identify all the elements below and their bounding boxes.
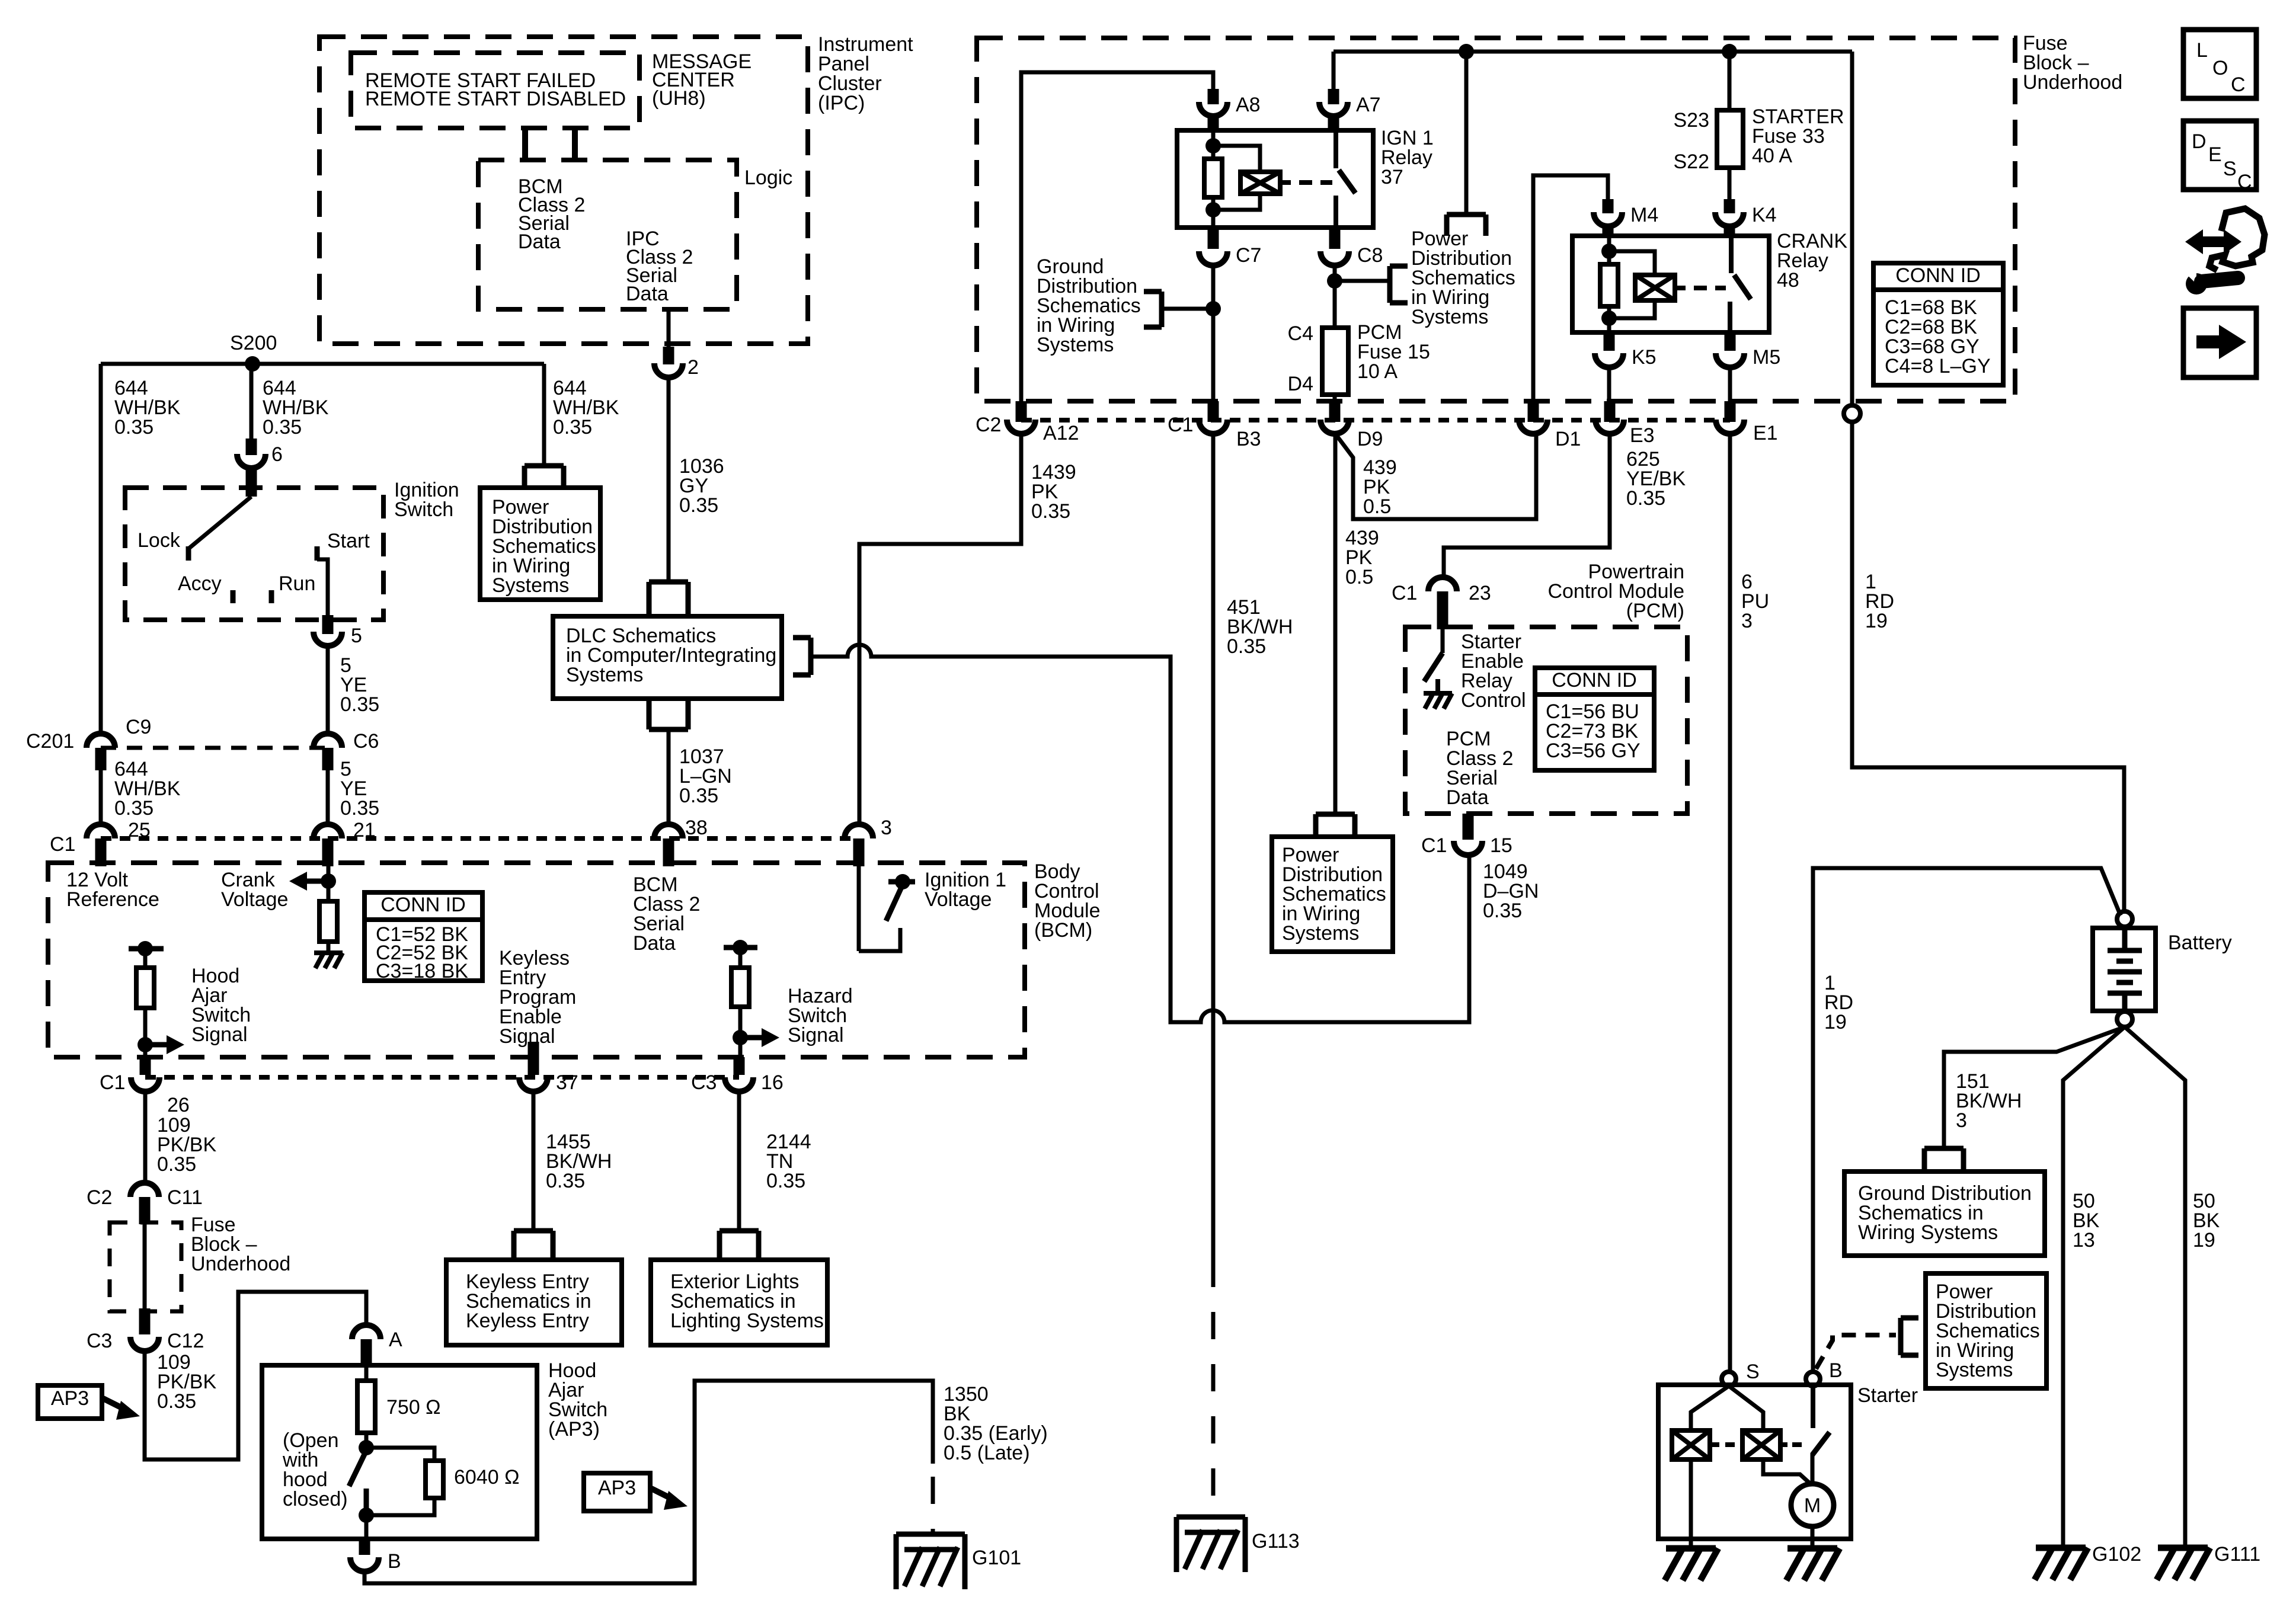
bracket to power distribution box (mid) <box>1316 814 1355 834</box>
icon arrow box <box>2183 308 2256 377</box>
svg-text:16: 16 <box>761 1071 784 1094</box>
wire to PCM internal ground <box>1435 679 1440 693</box>
svg-text:E: E <box>2208 143 2222 166</box>
pin K5 stub <box>1604 332 1615 351</box>
svg-text:0.35: 0.35 <box>766 1170 805 1192</box>
svg-text:CONN ID: CONN ID <box>380 894 466 916</box>
svg-text:Systems: Systems <box>566 664 643 686</box>
wire hood ajar upper <box>143 949 148 968</box>
relay coil feed <box>1211 130 1216 159</box>
svg-text:0.35: 0.35 <box>1031 500 1070 523</box>
svg-text:M: M <box>1804 1494 1821 1517</box>
svg-text:A12: A12 <box>1043 422 1079 444</box>
node crank voltage <box>321 873 336 889</box>
wire to pin B <box>364 1515 369 1539</box>
crank solenoid actuator lead <box>1675 286 1686 290</box>
svg-text:A7: A7 <box>1356 94 1381 116</box>
svg-text:G102: G102 <box>2092 1543 2141 1566</box>
ground starter motor <box>1786 1548 1840 1580</box>
wire 439 PK from D9 down <box>1334 434 1338 812</box>
bracket C8 to power distribution text <box>1390 266 1408 303</box>
svg-text:0.35: 0.35 <box>1626 487 1665 510</box>
CONN ID table (PCM) <box>1535 668 1654 770</box>
svg-text:Control: Control <box>1461 689 1526 712</box>
dashed actuator link IGN1 <box>1299 180 1332 185</box>
Fuse Block - Underhood (small) box <box>110 1222 181 1311</box>
wire ignition 1 voltage inside BCM <box>857 866 861 951</box>
svg-text:E1: E1 <box>1753 422 1778 444</box>
connector C201 dashed row <box>101 746 328 750</box>
pin C1/26 stub <box>140 1057 151 1075</box>
svg-text:Lighting Systems: Lighting Systems <box>670 1310 824 1332</box>
wire to IGN1 solenoid <box>1213 146 1260 172</box>
wire 439 PK loop D9 to D1 <box>1335 434 1536 519</box>
svg-text:0.35: 0.35 <box>546 1170 585 1192</box>
terminal starter S <box>1722 1372 1736 1386</box>
connector C201 pin C9 <box>87 734 115 748</box>
svg-text:D: D <box>2192 130 2207 153</box>
connector pin E3 <box>1595 420 1624 434</box>
tag AP3 (right) <box>584 1473 650 1511</box>
svg-text:26: 26 <box>167 1094 190 1116</box>
svg-text:S: S <box>1746 1361 1760 1383</box>
Powertrain Control Module (PCM) box <box>1405 627 1687 814</box>
wire K5 to E3 <box>1607 367 1611 417</box>
svg-text:6040 Ω: 6040 Ω <box>454 1466 520 1489</box>
svg-text:0.35: 0.35 <box>1227 635 1266 658</box>
C6 stub <box>322 748 334 770</box>
svg-text:Voltage: Voltage <box>925 888 992 911</box>
wire starter enable relay control <box>1441 629 1445 653</box>
C9 stub <box>95 748 107 770</box>
svg-text:A: A <box>389 1329 402 1351</box>
node C8 junction <box>1327 273 1342 289</box>
pin B stub <box>359 1539 370 1555</box>
svg-text:C3=18 BK: C3=18 BK <box>376 960 468 982</box>
svg-text:(UH8): (UH8) <box>652 87 706 110</box>
svg-text:A8: A8 <box>1236 94 1261 116</box>
connector C2 pin A12 <box>1007 420 1035 434</box>
svg-text:Systems: Systems <box>1282 922 1359 945</box>
svg-text:0.35: 0.35 <box>157 1153 196 1176</box>
svg-text:C: C <box>2237 171 2252 193</box>
svg-text:Signal: Signal <box>788 1024 844 1046</box>
wire 1 RD from battery positive to starter B <box>1813 868 2121 1372</box>
svg-text:19: 19 <box>2193 1229 2215 1251</box>
svg-text:C: C <box>2231 73 2246 96</box>
wire A12 to IGN1 relay A8 <box>1021 72 1213 401</box>
svg-text:C6: C6 <box>353 730 379 753</box>
wire PCM fuse to D9 <box>1333 395 1337 417</box>
BCM top connector dashed row (right) <box>328 836 859 841</box>
wire S200 horizontal bus <box>101 362 544 366</box>
wire message center to logic (right stub) <box>572 128 578 161</box>
connector pin C7 <box>1199 251 1227 265</box>
wire from crank solenoid <box>1609 300 1655 318</box>
svg-text:Wiring Systems: Wiring Systems <box>1858 1221 1998 1244</box>
ground starter solenoid <box>1665 1548 1718 1580</box>
svg-text:M4: M4 <box>1630 204 1658 226</box>
dashed actuator link CRANK <box>1694 286 1726 290</box>
connector hood ajar pin B <box>350 1557 379 1571</box>
svg-text:C8: C8 <box>1357 244 1383 267</box>
connector C1 pin 26 <box>131 1077 159 1092</box>
fuse PCM Fuse 15 10A <box>1322 328 1348 395</box>
arrow AP3 left tag <box>103 1398 126 1410</box>
Ignition Switch box <box>125 488 383 620</box>
resistor IGN1 relay coil <box>1204 159 1222 197</box>
wire 1 RD to battery positive <box>1852 422 2124 913</box>
switch starter contacts <box>1812 1432 1830 1455</box>
Lock contact tick <box>186 546 191 561</box>
connector C2/C11 <box>130 1183 159 1197</box>
svg-text:C1: C1 <box>50 833 75 856</box>
node relay coil bottom <box>1205 202 1221 217</box>
wire hold-in coil to motor node <box>1763 1459 1812 1486</box>
svg-text:C3=56 GY: C3=56 GY <box>1546 740 1641 762</box>
svg-text:D9: D9 <box>1357 428 1383 450</box>
hood ajar switch lever <box>349 1451 366 1486</box>
wire hazard lower <box>738 1007 743 1057</box>
starter box <box>1658 1385 1851 1539</box>
tag AP3 (left) <box>38 1385 102 1419</box>
pin 15 stub <box>1463 814 1474 840</box>
wire S to right solenoid <box>1729 1386 1763 1430</box>
svg-text:0.35: 0.35 <box>114 797 154 820</box>
svg-text:CONN ID: CONN ID <box>1895 264 1981 287</box>
svg-text:Underhood: Underhood <box>2023 71 2122 94</box>
wire M5 to E1 <box>1728 367 1732 417</box>
pin D9 stub <box>1329 401 1341 422</box>
svg-text:37: 37 <box>1381 166 1403 188</box>
svg-text:C4=8 L–GY: C4=8 L–GY <box>1885 355 1991 377</box>
pin C8 stub <box>1329 230 1341 249</box>
node ground distribution junction <box>1205 301 1221 316</box>
node hazard signal <box>733 1030 748 1045</box>
wire A to 750 ohm <box>364 1368 369 1381</box>
svg-text:Switch: Switch <box>394 498 453 521</box>
wire 625 YE/BK from E3 to PCM 23 <box>1444 434 1610 577</box>
resistor hazard pull-up <box>731 968 749 1007</box>
svg-text:19: 19 <box>1824 1011 1847 1033</box>
wire 5 YE to C6 <box>326 646 330 735</box>
svg-text:37: 37 <box>556 1071 578 1094</box>
wire dashed to G101 <box>931 1477 935 1532</box>
label CONN ID (fuse block) <box>1873 287 2003 292</box>
IGN1 switch lower contact <box>1334 196 1338 228</box>
pin 3 stub <box>853 838 865 866</box>
svg-text:Reference: Reference <box>66 888 159 911</box>
svg-text:Battery: Battery <box>2168 932 2232 954</box>
svg-text:48: 48 <box>1777 269 1799 292</box>
wire D1 to CRANK relay M4 <box>1533 175 1608 401</box>
svg-text:G101: G101 <box>972 1547 1021 1569</box>
resistor 750 ohm <box>357 1381 375 1433</box>
wire to 6040 ohm top <box>366 1448 434 1461</box>
pin A8 stub <box>1208 89 1219 104</box>
CRANK switch fixed contact upper <box>1729 236 1734 273</box>
svg-text:Lock: Lock <box>137 529 181 552</box>
wire bus to starter fuse <box>1728 52 1732 110</box>
Run contact tick <box>269 590 274 603</box>
svg-text:Data: Data <box>633 932 676 955</box>
hood switch lower contact <box>364 1489 369 1515</box>
wire 50 BK 19 to G111 <box>2125 1027 2185 1545</box>
terminal battery negative <box>2117 1012 2132 1027</box>
relay IGN 1 Relay 37 <box>1177 130 1373 228</box>
wire to BCM internal ground <box>327 942 331 953</box>
svg-text:3: 3 <box>1956 1109 1967 1132</box>
bracket power distribution ref (fuse block) <box>1447 215 1486 236</box>
svg-text:L: L <box>2196 39 2208 62</box>
svg-text:Underhood: Underhood <box>191 1253 290 1275</box>
Power Distribution Schematics box (mid) <box>1272 837 1393 952</box>
dashed link to starter switch <box>1792 1442 1805 1447</box>
svg-text:0.35: 0.35 <box>679 494 718 517</box>
ignition switch Lock lever <box>188 497 251 549</box>
svg-text:E3: E3 <box>1630 424 1655 447</box>
svg-text:B: B <box>388 1550 401 1573</box>
svg-text:Systems: Systems <box>1411 306 1488 328</box>
svg-text:Logic: Logic <box>744 167 792 189</box>
svg-text:Accy: Accy <box>178 572 222 595</box>
terminal starter B <box>1806 1372 1820 1386</box>
wire motor to ground <box>1811 1526 1815 1548</box>
pin M4 stub <box>1603 199 1614 213</box>
crank coil return <box>1607 306 1611 332</box>
connector pin D1 <box>1519 420 1547 434</box>
svg-text:0.35: 0.35 <box>157 1390 196 1413</box>
pin E1 stub <box>1725 401 1736 422</box>
ground G101 <box>896 1534 965 1589</box>
svg-text:AP3: AP3 <box>51 1387 89 1410</box>
resistor CRANK relay coil <box>1600 264 1618 306</box>
svg-text:Data: Data <box>1446 786 1489 809</box>
fuse block connector dotted row <box>1021 418 1730 422</box>
connector PCM C1 pin 15 <box>1454 841 1482 855</box>
svg-text:K4: K4 <box>1752 204 1777 226</box>
icon right arrow <box>2196 335 2221 348</box>
svg-text:0.35: 0.35 <box>1483 900 1522 922</box>
svg-text:0.35: 0.35 <box>263 416 302 438</box>
Start contact tick <box>315 546 320 561</box>
wire class 2 serial data bus from DLC to PCM <box>811 645 1469 1022</box>
pin K4 stub <box>1724 199 1735 213</box>
switch Ignition 1 Voltage <box>888 879 915 885</box>
node crank coil top <box>1601 244 1617 259</box>
svg-text:10 A: 10 A <box>1357 360 1398 383</box>
svg-text:750 Ω: 750 Ω <box>386 1396 441 1419</box>
wire 109 PK/BK upper <box>143 1092 148 1183</box>
off-page bracket to DLC box <box>649 582 688 615</box>
svg-text:C1: C1 <box>1421 834 1447 857</box>
Fuse Block - Underhood box <box>977 38 2015 401</box>
connector pin M5 <box>1716 353 1744 367</box>
wire 6 PU from E1 to starter S <box>1728 434 1732 1372</box>
wire 644 WH/BK from C201 to BCM <box>99 770 103 824</box>
svg-text:C4: C4 <box>1288 322 1313 345</box>
svg-text:C2: C2 <box>976 414 1001 436</box>
connector pin E1 <box>1716 420 1744 434</box>
pin 5 stub <box>322 615 334 634</box>
bracket starter power distribution <box>1901 1318 1918 1355</box>
Power Distribution Schematics box (left) <box>480 488 600 600</box>
ground G102 <box>2035 1548 2088 1580</box>
node hood ajar signal <box>137 1037 153 1052</box>
ignition switch input stub <box>246 468 257 497</box>
pin 23 stub <box>1437 591 1448 629</box>
svg-text:Starter: Starter <box>1857 1384 1918 1407</box>
connector pin D9 <box>1320 420 1349 434</box>
svg-text:19: 19 <box>1865 610 1888 632</box>
wire to crank solenoid <box>1609 251 1655 275</box>
label CONN ID (PCM) <box>1535 692 1654 697</box>
wire hood ajar B to ground splice <box>364 1381 933 1583</box>
svg-text:38: 38 <box>685 817 708 839</box>
BCM top connector dashed row (left) <box>101 836 328 841</box>
connector pin A7 <box>1319 102 1348 116</box>
pin 21 stub <box>322 838 334 866</box>
wire to ignition 1 switch contact <box>859 928 900 951</box>
CRANK switch lever <box>1734 275 1751 299</box>
battery <box>2093 928 2156 1011</box>
svg-text:2: 2 <box>687 356 699 379</box>
svg-text:6: 6 <box>271 443 283 466</box>
pin A7 stub <box>1328 89 1339 104</box>
arrow hood ajar switch signal <box>145 1042 169 1048</box>
icon jumper harness with double arrow and wrench <box>2185 229 2241 254</box>
svg-text:C9: C9 <box>126 716 151 738</box>
svg-text:(BCM): (BCM) <box>1034 919 1092 942</box>
arrow hazard switch signal <box>740 1035 764 1041</box>
Accy contact tick <box>231 590 236 603</box>
arrow AP3 right tag <box>651 1489 673 1499</box>
svg-text:M5: M5 <box>1753 346 1780 369</box>
wire 451 BK/WH from B3 <box>1211 434 1216 1260</box>
svg-text:S22: S22 <box>1674 151 1710 173</box>
svg-text:Data: Data <box>626 283 669 305</box>
wire IPC serial data from Logic box <box>667 309 671 356</box>
hood ajar switch signal rail <box>129 946 164 952</box>
pin 38 stub <box>663 838 674 866</box>
svg-text:D1: D1 <box>1555 428 1581 450</box>
svg-text:B: B <box>1829 1359 1843 1382</box>
wire 151 BK/WH from battery negative <box>1944 1027 2125 1146</box>
connector pin 6 <box>237 454 266 468</box>
wire B to starter switch <box>1811 1386 1815 1428</box>
svg-text:0.35: 0.35 <box>340 797 379 820</box>
connector pin 5 <box>314 632 342 646</box>
bracket DLC right to class 2 bus <box>793 638 811 675</box>
svg-text:closed): closed) <box>283 1488 348 1510</box>
CONN ID table (BCM) <box>364 892 482 981</box>
node bus to power distribution ref <box>1459 44 1474 59</box>
svg-text:C1: C1 <box>1392 582 1417 604</box>
svg-text:Keyless Entry: Keyless Entry <box>466 1310 589 1332</box>
connector hood ajar pin A <box>352 1325 380 1339</box>
wire Start output <box>317 559 328 619</box>
connector C1 pin B3 <box>1199 420 1227 434</box>
svg-text:G111: G111 <box>2214 1543 2260 1566</box>
hazard switch signal rail <box>724 945 757 950</box>
Power Distribution Schematics box (starter) <box>1926 1273 2046 1388</box>
svg-text:S23: S23 <box>1674 109 1710 132</box>
bracket to exterior lights box <box>720 1231 759 1257</box>
svg-text:(PCM): (PCM) <box>1626 600 1684 622</box>
svg-text:0.5: 0.5 <box>1363 495 1391 518</box>
ground PCM internal <box>1424 693 1452 709</box>
svg-text:Start: Start <box>327 530 370 552</box>
svg-text:0.5: 0.5 <box>1345 566 1373 588</box>
pin 2 stub <box>663 347 674 364</box>
svg-text:C1: C1 <box>100 1071 125 1094</box>
svg-text:O: O <box>2212 57 2228 79</box>
wire hazard upper <box>738 948 743 968</box>
CONN ID table (fuse block) <box>1873 263 2003 385</box>
bracket DLC to 1037 wire <box>649 701 688 729</box>
svg-text:G113: G113 <box>1252 1530 1300 1553</box>
wire left solenoid to ground <box>1689 1459 1693 1548</box>
svg-text:3: 3 <box>1741 610 1753 632</box>
svg-text:(AP3): (AP3) <box>548 1418 600 1441</box>
svg-text:0.35: 0.35 <box>340 693 379 716</box>
svg-text:40 A: 40 A <box>1752 145 1792 167</box>
svg-text:Run: Run <box>279 572 315 595</box>
wire from 6040 ohm bottom <box>366 1498 434 1515</box>
svg-text:C201: C201 <box>26 730 74 753</box>
wire 750 ohm to switch node <box>364 1433 369 1448</box>
wire 644 WH/BK to ignition switch <box>250 364 254 443</box>
wire dashed starter B to power distribution ref <box>1816 1335 1896 1369</box>
svg-text:0.5 (Late): 0.5 (Late) <box>944 1442 1030 1464</box>
wire bus to output circle <box>1850 52 1854 405</box>
svg-text:AP3: AP3 <box>598 1477 636 1499</box>
relay coil return <box>1211 197 1216 228</box>
solenoid IGN1 relay coil symbol <box>1240 172 1280 194</box>
connector BCM pin 21 <box>314 824 342 838</box>
wire S to left solenoid <box>1691 1386 1729 1430</box>
pin A12 stub <box>1016 401 1027 422</box>
wire switch to motor <box>1811 1453 1815 1484</box>
Exterior Lights Schematics box <box>651 1260 827 1345</box>
svg-text:15: 15 <box>1490 834 1512 857</box>
CRANK switch lower contact <box>1728 302 1732 332</box>
Body Control Module (BCM) box <box>48 863 1025 1057</box>
wire 109 PK/BK to hood ajar switch A <box>145 1292 366 1459</box>
svg-text:Systems: Systems <box>1936 1359 2013 1381</box>
svg-text:3: 3 <box>881 817 892 839</box>
connector PCM C1 pin 23 <box>1428 577 1457 591</box>
Ground Distribution Schematics box <box>1844 1172 2045 1256</box>
wire 5 YE from C6 to BCM 21 <box>326 770 330 824</box>
pin C3/16 stub <box>734 1057 745 1075</box>
svg-text:5: 5 <box>351 625 362 647</box>
svg-text:23: 23 <box>1469 582 1491 604</box>
dashed link starter solenoids <box>1725 1442 1737 1447</box>
svg-text:Signal: Signal <box>499 1025 555 1048</box>
crank coil feed <box>1607 236 1611 264</box>
connector pin C8 <box>1320 251 1349 265</box>
terminal battery positive <box>2117 911 2132 927</box>
pin A stub <box>361 1339 372 1368</box>
wire 50 BK 13 to G102 <box>2063 1027 2125 1545</box>
svg-text:C3: C3 <box>691 1071 717 1094</box>
svg-text:C2: C2 <box>87 1186 112 1209</box>
node hood switch bottom <box>359 1507 374 1523</box>
MESSAGE CENTER (UH8) box <box>351 53 639 128</box>
svg-text:0.35: 0.35 <box>679 785 718 807</box>
wire hood ajar lower <box>143 1008 148 1057</box>
